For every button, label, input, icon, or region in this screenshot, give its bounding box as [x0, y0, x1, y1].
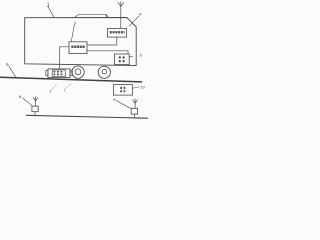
svg-text:10: 10 — [141, 86, 145, 90]
radio box U6 (2x2 marks) — [114, 54, 129, 65]
remote box 10 — [114, 85, 133, 96]
wire B1 to B2 — [87, 37, 117, 45]
battery cell marks — [54, 71, 63, 75]
ground line 2 (lower) — [26, 115, 148, 118]
roof panel — [75, 15, 108, 18]
leader label 5 — [9, 66, 16, 78]
wheel W1 hub — [75, 69, 81, 75]
box B1 (main unit) — [69, 42, 87, 54]
leader label 4 — [129, 16, 139, 26]
leader label 10 — [133, 87, 140, 88]
antenna A3 ground stub — [133, 114, 135, 118]
tiny leader b — [65, 83, 71, 89]
antenna A3 mast — [134, 103, 136, 108]
battery right tab — [70, 71, 72, 76]
leader label 1 — [48, 6, 55, 18]
svg-text:7: 7 — [64, 88, 66, 92]
svg-text:1: 1 — [47, 2, 50, 8]
antenna A2 fork (bottom left) — [33, 97, 38, 101]
svg-text:2: 2 — [50, 89, 52, 93]
battery box (left, dotted) — [48, 69, 70, 78]
antenna A1 (roof) — [118, 2, 123, 7]
vehicle body outline — [25, 18, 137, 66]
antenna A2 ground stub — [34, 112, 36, 116]
tiny leader a — [51, 84, 57, 90]
svg-text:6: 6 — [140, 54, 142, 58]
wheel W2 — [98, 66, 110, 78]
stub to label 6 — [129, 56, 133, 58]
antenna A3 box — [131, 108, 137, 114]
battery left tab — [46, 71, 48, 76]
box B2 text (glyph blobs) — [110, 31, 125, 33]
antenna A2 mast — [35, 101, 37, 106]
battery inner box — [52, 70, 65, 77]
box B1 text (glyph blobs) — [71, 46, 84, 49]
roof panel right tick — [106, 15, 108, 18]
leader label 9 — [116, 101, 131, 109]
wire B1 left to battery — [59, 47, 69, 69]
box B2 (antenna controller) — [107, 28, 126, 37]
wire B1 to radio box — [87, 51, 128, 54]
antenna A3 fork (bottom right) — [133, 99, 138, 103]
antenna A2 box — [32, 106, 38, 112]
ground line (rail) — [0, 77, 142, 82]
leader label 3 — [71, 25, 74, 42]
leader label 8 — [23, 98, 33, 106]
antenna mast wire — [120, 6, 122, 28]
wheel W1 — [72, 66, 84, 78]
wheel W2 hub — [102, 69, 107, 74]
